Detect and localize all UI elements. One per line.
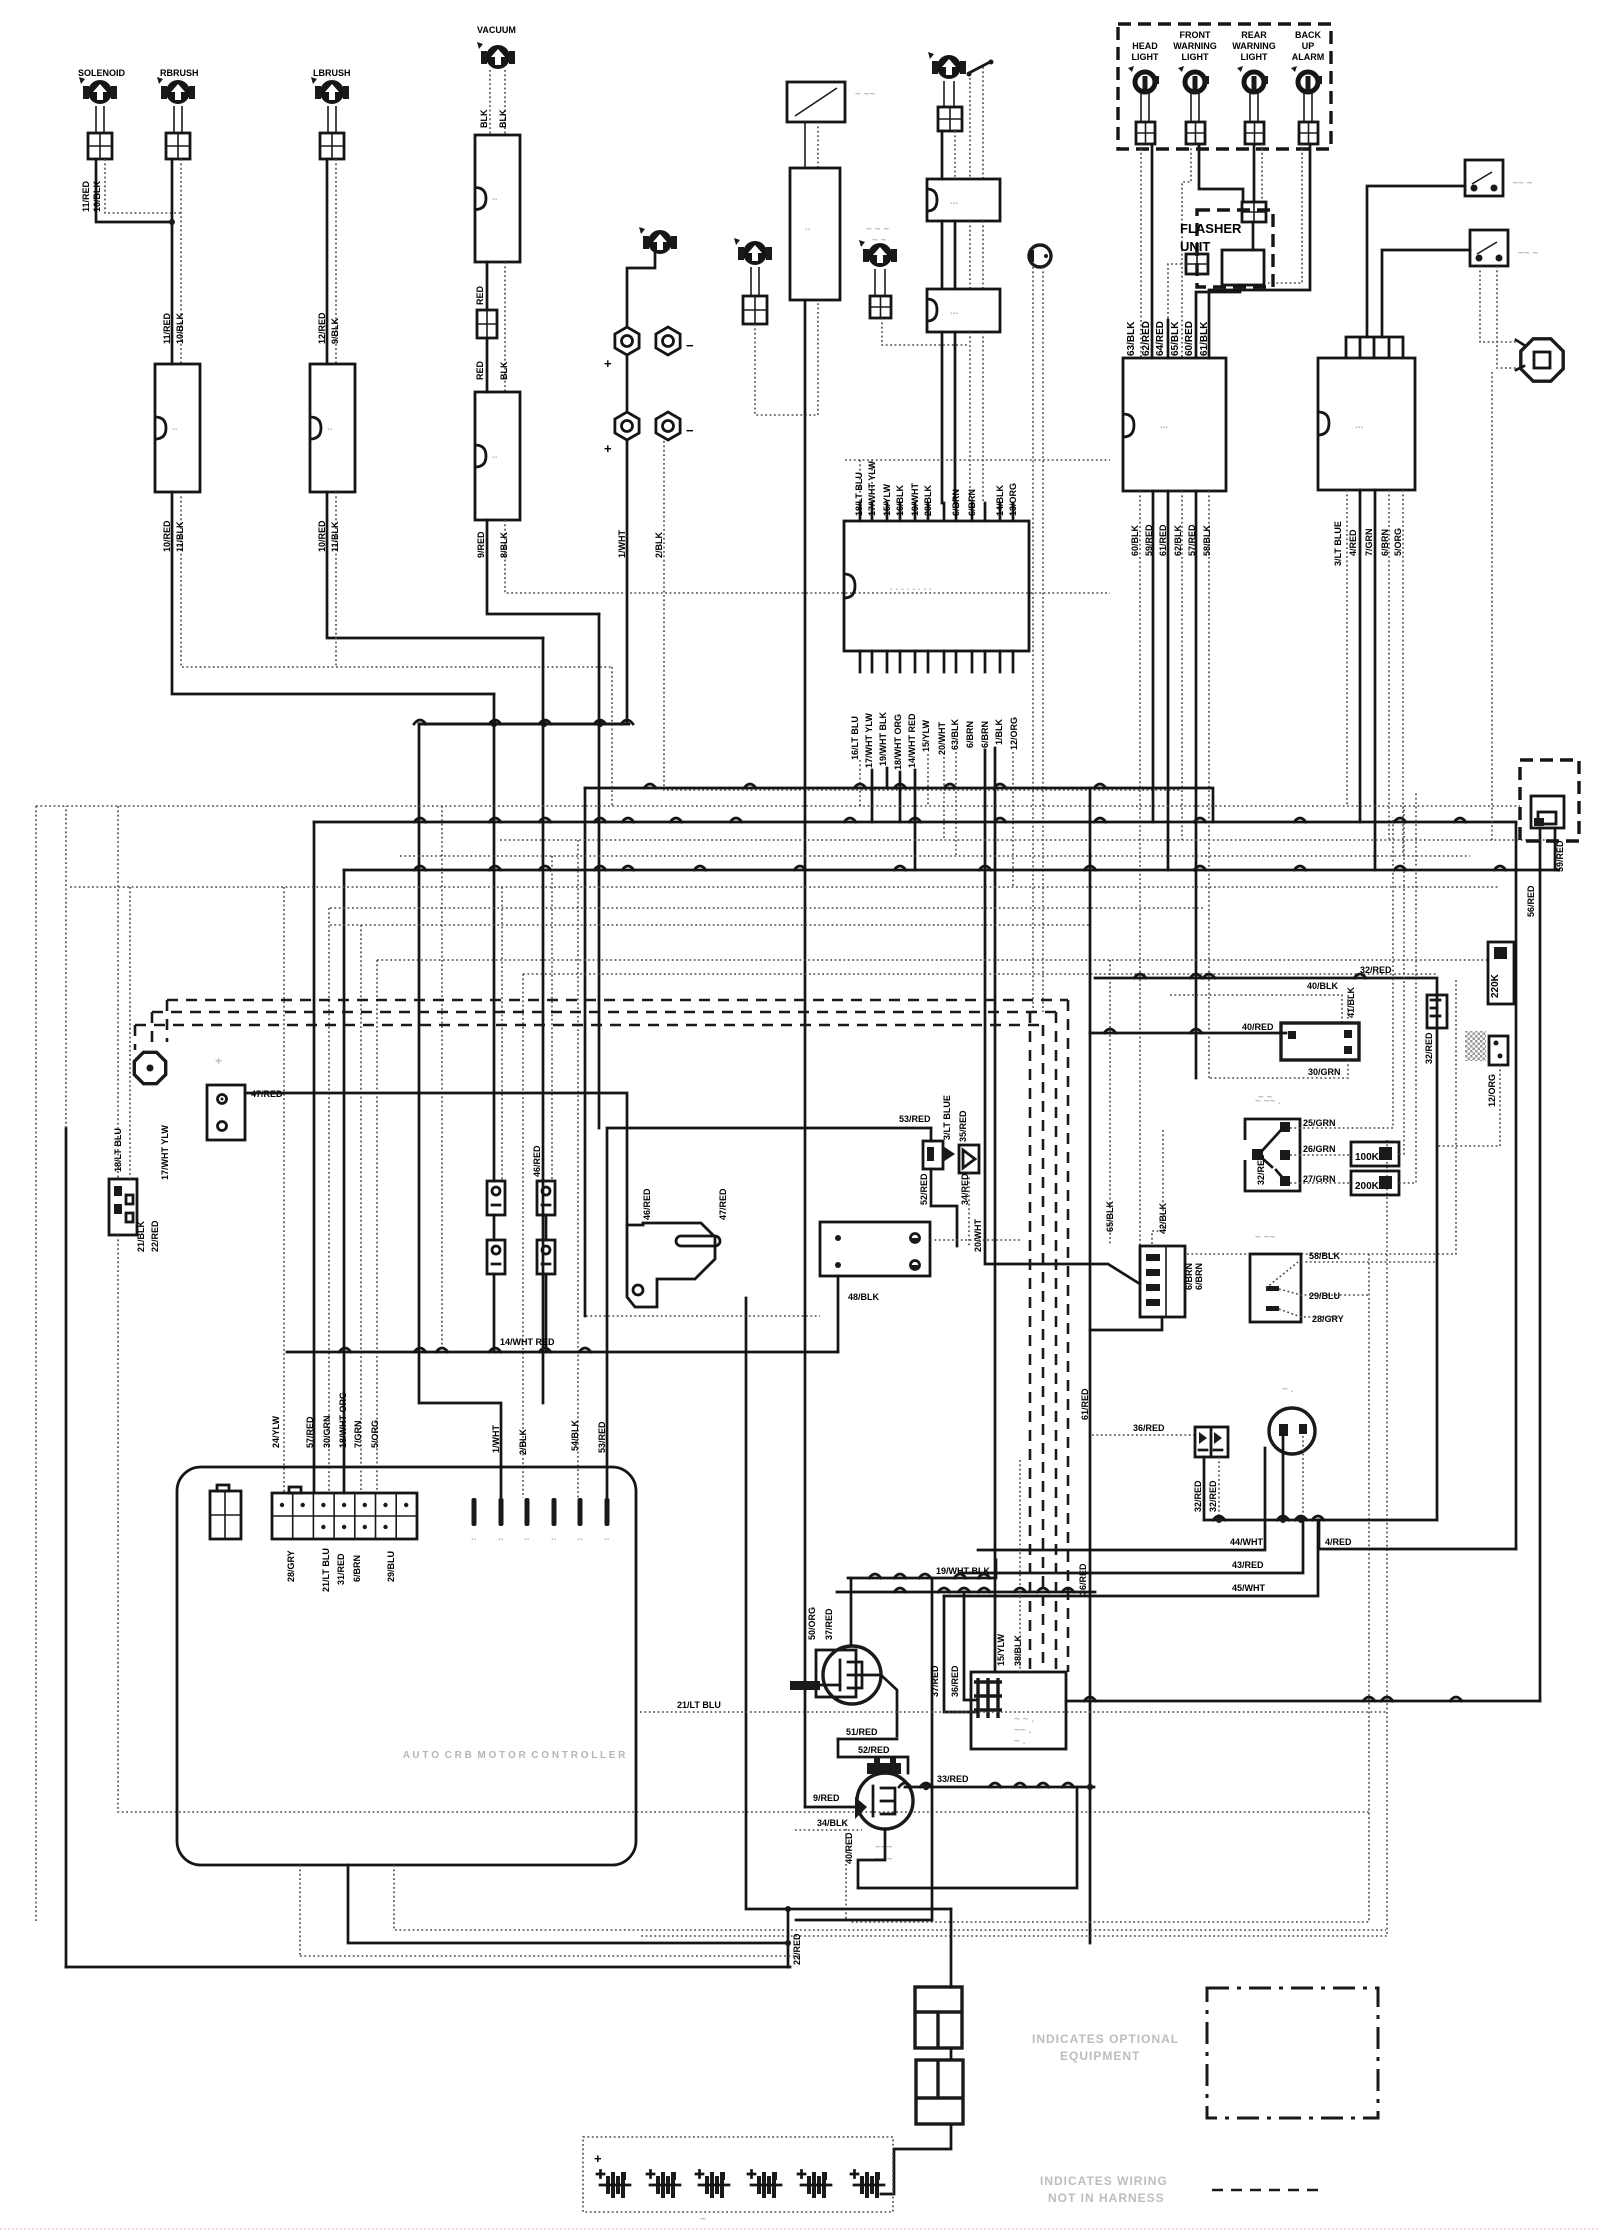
svg-text:~ ~~ .: ~ ~~ . [1255, 1096, 1281, 1107]
circuit breaker C [475, 135, 520, 262]
svg-text:~~ .: ~~ . [1014, 1725, 1031, 1736]
svg-text:20/WHT: 20/WHT [937, 721, 947, 755]
svg-text:FLASHER: FLASHER [1180, 221, 1242, 236]
svg-text:5/ORG: 5/ORG [370, 1420, 380, 1448]
wire 8/BLK below breaker D [505, 520, 1110, 593]
svg-text:17/WHT YLW: 17/WHT YLW [864, 713, 874, 768]
relay 40/RED [1281, 1023, 1359, 1060]
svg-text:..: .. [604, 1532, 610, 1543]
wire 43/RED [960, 1520, 1303, 1573]
flasher left connector [1186, 254, 1208, 274]
svg-text:A U T O C R B M O T O R C O: A U T O C R B M O T O R C O N T R O L L … [400, 1750, 626, 1761]
wire dotted y1712 [640, 1711, 1386, 1713]
wire dotted bus y925 [330, 924, 1090, 926]
wire dotted drop x377 [376, 960, 378, 1493]
svg-text:1/WHT: 1/WHT [617, 530, 627, 559]
wire dashed 1 [167, 1000, 1068, 1672]
svg-text:8/BLK: 8/BLK [499, 531, 509, 558]
svg-text:54/BLK: 54/BLK [570, 1419, 580, 1451]
wire bus h7 y870 [344, 869, 1559, 872]
wire below G solid [804, 300, 807, 1807]
wire fuse link [950, 2048, 953, 2060]
module box G [790, 168, 840, 300]
svg-text:44/WHT: 44/WHT [1230, 1537, 1264, 1547]
connector 35/RED [959, 1145, 979, 1173]
svg-text:19/WHT: 19/WHT [910, 482, 920, 516]
wire 46/RED down [493, 1274, 496, 1352]
svg-text:BLK: BLK [479, 109, 489, 128]
wire dotted into left connector 2 [129, 887, 131, 1179]
svg-text:12/ORG: 12/ORG [1009, 717, 1019, 750]
svg-text:40/RED: 40/RED [1242, 1022, 1274, 1032]
svg-text:29/BLU: 29/BLU [1309, 1291, 1340, 1301]
switch lever top [969, 62, 990, 73]
svg-text:6/BRN: 6/BRN [352, 1555, 362, 1582]
svg-text:~ ~ ~: ~ ~ ~ [866, 224, 889, 235]
svg-text:14/BLK: 14/BLK [995, 484, 1005, 516]
svg-text:3/LT BLUE: 3/LT BLUE [942, 1095, 952, 1140]
wire 36/RED relay [964, 1592, 977, 1700]
svg-text:29/BLU: 29/BLU [386, 1551, 396, 1582]
wire v5 to controller strip [313, 822, 316, 1493]
svg-text:LIGHT: LIGHT [1241, 52, 1268, 62]
wire 2/BLK from battery minus [664, 441, 1180, 790]
svg-text:62/RED: 62/RED [1141, 321, 1152, 356]
battery 1 [597, 2171, 604, 2178]
wire 19/WHT BLK [848, 1560, 996, 1578]
svg-text:34/BLK: 34/BLK [817, 1818, 849, 1828]
svg-text:..: .. [551, 1532, 557, 1543]
svg-text:RED: RED [475, 360, 485, 380]
svg-text:37/RED: 37/RED [930, 1665, 940, 1697]
wire 42/BLK dotted [1152, 1130, 1163, 1246]
wire 25/GRN dotted [1290, 817, 1393, 1128]
svg-text:32/RED: 32/RED [1208, 1480, 1218, 1512]
wire dotted bus y840 [500, 839, 1560, 841]
wire dotted drop x442 [441, 806, 443, 1352]
svg-text:40/BLK: 40/BLK [1307, 981, 1339, 991]
svg-text:...: ... [950, 196, 959, 207]
wire 1/WHT from battery plus [419, 441, 627, 724]
svg-text:50/ORG: 50/ORG [807, 1607, 817, 1640]
svg-text:64/RED: 64/RED [1155, 321, 1166, 356]
wire 10/RED below breaker A [172, 492, 494, 694]
connector plug I [1029, 245, 1051, 267]
svg-text:46/RED: 46/RED [642, 1188, 652, 1220]
wire 29/BLU dotted [1279, 1289, 1369, 1295]
wire 59/RED drop [1554, 828, 1557, 870]
wire S2 to horn 2 [1497, 266, 1516, 368]
connector diode pair [1195, 1427, 1228, 1457]
wire IC2 out 7/GRN [1374, 490, 1377, 870]
svg-text:FRONT: FRONT [1180, 30, 1211, 40]
wire K out 63/BLK [955, 752, 957, 856]
svg-text:19/WHT BLK: 19/WHT BLK [878, 711, 888, 766]
relay contact 1 [487, 1181, 505, 1215]
svg-text:30/GRN: 30/GRN [322, 1415, 332, 1448]
svg-text:60/BLK: 60/BLK [1130, 524, 1140, 556]
svg-text:10/RED: 10/RED [162, 520, 172, 552]
wire lever dotted 2 [982, 67, 984, 179]
wire v6 to controller strip [343, 870, 346, 1493]
module K top stubs [859, 503, 862, 521]
svg-text:3/LT BLUE: 3/LT BLUE [1333, 521, 1343, 566]
svg-text:ALARM: ALARM [1292, 52, 1325, 62]
wire key right pin down [1302, 1436, 1304, 1520]
svg-text:53/RED: 53/RED [597, 1421, 607, 1453]
wire dotted bus y908 [330, 907, 1205, 909]
flasher top connector [1242, 202, 1266, 222]
motor VACUUM [486, 45, 510, 69]
wire IC1 out 60/BLK [1139, 491, 1141, 1246]
svg-text:WARNING: WARNING [1173, 41, 1217, 51]
svg-text:61/RED: 61/RED [1080, 1388, 1090, 1420]
connector SOLENOID [88, 133, 112, 159]
svg-text:65/BLK: 65/BLK [1170, 321, 1181, 356]
wire contactor right [1066, 1700, 1540, 1703]
wire front warning solid [1199, 144, 1243, 202]
wire 40/RED drop [845, 1820, 847, 1920]
wire 4/RED [1319, 1520, 1516, 1549]
wire left frame top [65, 806, 67, 1128]
connector LBRUSH [320, 133, 344, 159]
wire K out 19/WHT BLK [886, 768, 889, 788]
wire bus h8 y788 [585, 788, 1213, 822]
wire 12/ORG dotted [1437, 1065, 1500, 1146]
wire IC1 out 57/RED [1195, 491, 1198, 1078]
wire IC1 out 61/RED [1167, 491, 1170, 870]
wire 45/WHT [944, 1520, 1318, 1596]
relay contact 2 [537, 1181, 555, 1215]
wire 22/RED down [118, 1235, 1369, 1812]
svg-text:63/BLK: 63/BLK [1126, 321, 1137, 356]
wire K out 6/BRN long [985, 750, 1140, 1284]
svg-text:+: + [604, 441, 612, 456]
wire 12/RED lbrush [326, 159, 329, 364]
battery stud minus 2 [656, 412, 680, 440]
wire K out 15/YLW [927, 754, 929, 806]
wire IC2 out 6/BRN [1388, 490, 1390, 840]
wire rear warning solid [1253, 144, 1256, 202]
motor key buzzer [937, 55, 961, 79]
svg-text:+: + [594, 2151, 602, 2166]
wire 28/GRY dotted [1279, 1309, 1340, 1317]
svg-text:15/YLW: 15/YLW [921, 719, 931, 752]
svg-text:SOLENOID: SOLENOID [78, 68, 126, 78]
switch 58/BLK box [1250, 1254, 1301, 1322]
wire K pin dotted up 1 [859, 460, 861, 503]
circuit breaker D [475, 392, 520, 520]
wire 47/RED [245, 1093, 627, 1225]
wire dotted x612 drop [611, 667, 613, 806]
wire 10/BLK rbrush [180, 159, 182, 364]
wire v3 down x543 [542, 638, 545, 1403]
wire dashed 2 [152, 1012, 1056, 1672]
svg-text:18/WHT ORG: 18/WHT ORG [338, 1392, 348, 1448]
box 48/BLK [820, 1222, 930, 1276]
svg-text:~ .: ~ . [1014, 1736, 1026, 1747]
battery 2 [647, 2171, 654, 2178]
wire dotted v1369 [850, 1254, 1369, 1922]
svg-text:38/BLK: 38/BLK [1013, 1634, 1023, 1666]
svg-text:17/WHT YLW: 17/WHT YLW [160, 1125, 170, 1180]
wire dotted v1456 [1185, 980, 1456, 1254]
svg-text:11/RED: 11/RED [81, 180, 91, 212]
wire 14/WHT RED bus [287, 1351, 838, 1354]
wire 32/RED key 1 [1203, 1457, 1206, 1520]
wire 58/BLK dotted [1301, 1261, 1437, 1263]
wire hops [414, 818, 426, 822]
svg-text:INDICATES WIRING: INDICATES WIRING [1040, 2174, 1168, 2188]
svg-text:+: + [215, 1054, 223, 1068]
svg-text:37/RED: 37/RED [824, 1608, 834, 1640]
option panel dashed box [1118, 24, 1331, 149]
wire dotted drop x578 [577, 840, 579, 1498]
module IC1 [1123, 358, 1226, 491]
wire dotted drop x329 [328, 908, 330, 1493]
svg-text:100K: 100K [1355, 1152, 1380, 1163]
wire key bus [1204, 1519, 1437, 1522]
svg-text:61/RED: 61/RED [1158, 524, 1168, 556]
svg-text:21/LT BLU: 21/LT BLU [321, 1548, 331, 1592]
battery 6 [851, 2171, 858, 2178]
wire IC2 out 5/ORG [1402, 490, 1404, 856]
battery stud minus 1 [656, 327, 680, 355]
module K [844, 521, 1029, 651]
svg-text:15/YLW: 15/YLW [996, 1633, 1006, 1666]
svg-text:9/RED: 9/RED [476, 531, 486, 558]
wire K out 20/WHT [943, 757, 945, 840]
wire 41/BLK dotted [1347, 995, 1349, 1023]
wire dotted drop x552 [551, 856, 553, 1181]
svg-text:6/BRN: 6/BRN [1194, 1263, 1204, 1290]
svg-text:2/BLK: 2/BLK [654, 531, 664, 558]
svg-text:..: .. [498, 1532, 504, 1543]
wire 46/RED link [493, 1215, 496, 1240]
svg-text:56/RED: 56/RED [1526, 885, 1536, 917]
svg-text:45/WHT: 45/WHT [1232, 1583, 1266, 1593]
resistor 100K [1351, 1142, 1399, 1166]
svg-text:6/BRN: 6/BRN [980, 721, 990, 748]
wire bottom y1972 [66, 1966, 790, 1969]
connector RBRUSH [166, 133, 190, 159]
connector hour meter [870, 296, 891, 318]
resistor 200K [1351, 1171, 1399, 1195]
motor charger receptacle [648, 230, 672, 254]
wire motor7 down 2 [954, 131, 956, 179]
svg-text:11/BLK: 11/BLK [330, 521, 340, 552]
motor LBRUSH [320, 80, 344, 104]
svg-text:46/RED: 46/RED [532, 1145, 542, 1177]
svg-text:6/BRN: 6/BRN [1184, 1263, 1194, 1290]
svg-text:12/ORG: 12/ORG [1487, 1074, 1497, 1107]
svg-text:20/WHT: 20/WHT [973, 1218, 983, 1252]
wire dotted y1956 [300, 1955, 800, 1957]
svg-text:~ ~: ~ ~ [872, 235, 887, 246]
svg-text:LBRUSH: LBRUSH [313, 68, 351, 78]
wire left frame x66 [65, 1128, 68, 1967]
wire 44/WHT [978, 1448, 1265, 1550]
svg-text:...: ... [950, 306, 959, 317]
svg-text:−: − [686, 423, 694, 438]
svg-text:59/RED: 59/RED [1555, 840, 1565, 872]
wire dashed 4 [1029, 1012, 1032, 1672]
svg-text:14/WHT RED: 14/WHT RED [500, 1337, 555, 1347]
legend optional box dash-dot [1207, 1988, 1378, 2118]
connector 12-pin [1140, 1246, 1185, 1317]
svg-text:4/RED: 4/RED [1348, 529, 1358, 556]
connector 52/RED [923, 1141, 943, 1169]
wire bottom y1909 [748, 1908, 951, 1911]
push switch S2 [1470, 230, 1508, 266]
wire 9/BLK lbrush [335, 159, 337, 364]
svg-text:59/RED: 59/RED [1144, 524, 1154, 556]
wire RED below breaker C [486, 262, 489, 310]
wire 9/RED below breaker D [487, 520, 599, 614]
wire dotted into contactor [1019, 1460, 1021, 1672]
svg-text:58/BLK: 58/BLK [1309, 1251, 1341, 1261]
hatched box [1465, 1031, 1486, 1061]
svg-text:28/GRY: 28/GRY [286, 1550, 296, 1582]
svg-text:220K: 220K [1490, 973, 1501, 998]
wire 52/RED drop [930, 1128, 933, 1141]
wire dotted into left connector 1 [117, 806, 119, 1179]
wire RED to breaker D [486, 338, 489, 392]
relay contact 3 [487, 1240, 505, 1274]
wire 36/RED dotted [1092, 1434, 1195, 1436]
wire 37/RED relay [944, 1596, 977, 1712]
svg-text:18/LT BLU: 18/LT BLU [854, 472, 864, 516]
svg-text:BLK: BLK [498, 109, 508, 128]
switch box H [787, 82, 845, 122]
wire 11/RED solenoid [96, 159, 172, 222]
wire 11/BLK below breaker A [181, 492, 612, 667]
wire K out 12/ORG [1012, 752, 1014, 887]
wire v788 [787, 1909, 790, 1967]
wire K out 16/LT BLU [859, 760, 861, 806]
svg-text:11/RED: 11/RED [162, 312, 172, 344]
svg-text:RED: RED [475, 285, 485, 305]
wire 52/RED [838, 1739, 908, 1773]
scanner artifact bottom line [0, 2228, 1600, 2230]
wire 65/BLK dotted [1109, 960, 1111, 1246]
wire back up alarm dotted [1268, 144, 1302, 283]
circuit breaker A [155, 364, 200, 492]
svg-text:61/BLK: 61/BLK [1199, 321, 1210, 356]
module IC2 [1318, 358, 1415, 490]
svg-text:31/RED: 31/RED [336, 1553, 346, 1585]
svg-text:. . . . . . . .: . . . . . . . . [890, 582, 932, 593]
connector box J [207, 1085, 245, 1140]
svg-text:..: .. [471, 1532, 477, 1543]
svg-text:WARNING: WARNING [1232, 41, 1276, 51]
svg-text:57/RED: 57/RED [1187, 524, 1197, 556]
relay contact 4 [537, 1240, 555, 1274]
wire 34/BLK dotted [795, 1829, 862, 1831]
wire T2 source down [858, 1829, 885, 1888]
svg-text:52/RED: 52/RED [919, 1173, 929, 1205]
svg-text:35/RED: 35/RED [958, 1110, 968, 1142]
horn [1521, 339, 1563, 381]
svg-text:BACK: BACK [1295, 30, 1321, 40]
svg-text:62/BLK: 62/BLK [1173, 524, 1183, 556]
svg-text:REAR: REAR [1241, 30, 1267, 40]
wire 34/RED [931, 1169, 957, 1246]
wire H to G 2 [817, 122, 819, 168]
wire S2 to horn 1 [1480, 266, 1516, 342]
wire BLK to breaker D [504, 262, 506, 392]
wire plug I dotted 1 [1032, 267, 1034, 1012]
svg-text:UNIT: UNIT [1180, 239, 1210, 254]
wire key left pin down [1282, 1437, 1285, 1520]
bracket plate [627, 1223, 715, 1307]
svg-text:5/ORG: 5/ORG [1393, 528, 1403, 556]
motor SOLENOID [88, 80, 112, 104]
svg-text:25/GRN: 25/GRN [1303, 1118, 1336, 1128]
box L dashed [1520, 760, 1579, 841]
svg-text:~ ~~: ~ ~~ [855, 89, 875, 100]
flasher relay box [1222, 250, 1264, 285]
wire 32/RED key 2 [1218, 1457, 1220, 1520]
battery 5 [798, 2171, 805, 2178]
wire v4 down x599 [598, 614, 601, 1128]
wire 40/BLK dotted [1170, 995, 1342, 1023]
svg-text:..: .. [524, 1532, 530, 1543]
svg-text:7/GRN: 7/GRN [353, 1420, 363, 1448]
svg-text:HEAD: HEAD [1132, 41, 1158, 51]
wire charger to battery stud [627, 253, 655, 327]
svg-text:~ .: ~ . [1282, 1384, 1294, 1395]
svg-text:..: .. [172, 422, 178, 433]
wire flasher internal [1252, 222, 1255, 250]
wire dotted bus y887 [70, 886, 1500, 888]
wire flasher output 60/RED [1196, 285, 1240, 358]
wire 46/RED down2 [545, 1274, 548, 1352]
svg-text:32/RED: 32/RED [1424, 1032, 1434, 1064]
wire 9/RED [805, 1806, 857, 1809]
svg-text:4/RED: 4/RED [1325, 1537, 1352, 1547]
wire dotted bus y460 [845, 459, 1110, 461]
svg-text:48/BLK: 48/BLK [848, 1292, 880, 1302]
ground symbol octagon [134, 1052, 165, 1083]
wire front warning dotted [1182, 144, 1191, 358]
svg-text:58/BLK: 58/BLK [1202, 524, 1212, 556]
svg-text:57/RED: 57/RED [305, 1416, 315, 1448]
wire right v x1516 [1515, 822, 1518, 1549]
svg-text:15/YLW: 15/YLW [882, 483, 892, 516]
svg-text:...: ... [1355, 420, 1364, 431]
wire 10/BLK solenoid [105, 159, 181, 213]
svg-text:LIGHT: LIGHT [1132, 52, 1159, 62]
svg-text:VACUUM: VACUUM [477, 25, 516, 35]
battery dotted enclosure [583, 2137, 893, 2212]
fuse block 2 [916, 2060, 963, 2124]
key switch [1269, 1408, 1315, 1454]
wire v932 [931, 1578, 934, 1920]
resistor box F [927, 289, 1000, 332]
svg-text:22/RED: 22/RED [150, 1220, 160, 1252]
wire K out 14/WHT RED [914, 770, 917, 870]
wire plug I dotted 2 [1042, 267, 1044, 1012]
wire 32/RED right [1095, 978, 1437, 1520]
wire dotted drop x284 [283, 887, 285, 1493]
svg-text:52/RED: 52/RED [858, 1745, 890, 1755]
wire 53/RED long [607, 1128, 931, 1498]
battery stud plus 2 [615, 412, 639, 440]
svg-text:9/RED: 9/RED [813, 1793, 840, 1803]
controller strip connector [272, 1493, 417, 1539]
svg-text:10/RED: 10/RED [317, 520, 327, 552]
